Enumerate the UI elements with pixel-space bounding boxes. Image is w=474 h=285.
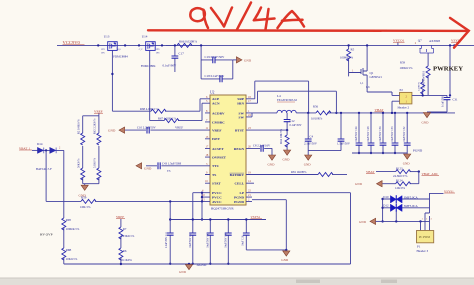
U2 left pin stubs	[202, 99, 210, 202]
ground under C31 wire	[422, 113, 431, 125]
wire BTST to bootstrap	[252, 129, 288, 131]
svg-text:C43 1.5uF/50M: C43 1.5uF/50M	[162, 161, 182, 165]
U2 left pin names	[212, 97, 227, 204]
resistor R123	[366, 166, 419, 178]
wire P2 right to C31	[412, 94, 451, 97]
text HV OVP	[40, 233, 53, 237]
svg-text:REGN: REGN	[234, 147, 245, 151]
svg-text:R08: R08	[66, 218, 72, 222]
wire PGND loop top	[252, 193, 351, 264]
diode D14 BAT54C	[36, 142, 64, 171]
svg-text:10uF/50V C30: 10uF/50V C30	[379, 126, 382, 142]
svg-text:TS: TS	[212, 173, 216, 177]
svg-text:U13: U13	[104, 35, 110, 39]
svg-text:T3: T3	[167, 169, 171, 173]
svg-text:R6: R6	[123, 249, 127, 253]
svg-text:OVPSET: OVPSET	[212, 156, 227, 160]
svg-text:AX3828: AX3828	[429, 39, 440, 43]
resistor R59	[46, 196, 202, 209]
svg-text:GEH2S21: GEH2S21	[370, 75, 383, 79]
svg-text:R123: R123	[396, 166, 403, 170]
resistor R67 ACN sense	[150, 103, 205, 122]
inductor L4	[252, 94, 308, 113]
svg-text:GND: GND	[281, 258, 289, 262]
wire divider top tie	[83, 115, 99, 117]
annotation underline arrow	[148, 18, 469, 48]
svg-text:0.010R%: 0.010R%	[311, 116, 323, 120]
svg-text:10uF/50V C13: 10uF/50V C13	[189, 232, 192, 248]
svg-text:ACP: ACP	[212, 97, 220, 101]
svg-text:BATDRV: BATDRV	[230, 173, 245, 177]
svg-text:U2: U2	[210, 90, 215, 94]
wire main VCC rail	[57, 44, 474, 46]
svg-text:R81 1K0B%: R81 1K0B%	[291, 170, 307, 174]
svg-text:ACSET: ACSET	[212, 147, 224, 151]
wire SRP sense	[252, 81, 309, 113]
svg-text:Header 2: Header 2	[398, 106, 410, 110]
ground left of R124	[355, 181, 382, 187]
transistor Q7	[415, 38, 441, 53]
svg-text:BTST: BTST	[235, 129, 245, 133]
ground under C8	[268, 155, 276, 166]
wire TVS left vertical	[381, 198, 383, 223]
svg-text:R6B: R6B	[66, 248, 72, 252]
svg-text:R124: R124	[396, 178, 403, 182]
svg-text:6,6: 6,6	[366, 86, 370, 89]
svg-text:10uF/50V C32: 10uF/50V C32	[403, 126, 406, 142]
capacitor C43 on TTC	[146, 161, 205, 172]
svg-text:GND: GND	[179, 270, 187, 274]
capacitor C30	[379, 112, 386, 154]
svg-text:ISET: ISET	[212, 137, 221, 141]
wire AGND bottom rail	[64, 263, 351, 265]
op-amp U2 body	[210, 90, 246, 210]
resistor R08	[62, 218, 80, 231]
wire U14 drain drop	[149, 50, 151, 120]
node VREF divider top	[94, 110, 103, 116]
resistor R64	[280, 128, 289, 150]
svg-text:100KR/1%: 100KR/1%	[66, 227, 80, 231]
wire P1 pin columns	[421, 199, 433, 231]
U2 right pin names	[230, 97, 245, 204]
U2 right pin stubs	[246, 99, 254, 202]
U2 right pin numbers	[248, 96, 251, 202]
capacitor C10 on VREF	[125, 126, 205, 134]
svg-text:GND: GND	[355, 182, 363, 186]
resistor R56 current sense	[311, 105, 331, 121]
svg-text:10uF/50V C33: 10uF/50V C33	[391, 126, 394, 142]
capacitor C13	[189, 218, 196, 265]
svg-text:GND: GND	[244, 58, 252, 62]
svg-text:PGND: PGND	[234, 196, 244, 200]
svg-text:GND: GND	[403, 161, 411, 165]
svg-text:D12: D12	[383, 204, 389, 208]
svg-text:SMF5.0CA: SMF5.0CA	[404, 195, 419, 199]
svg-text:R5: R5	[351, 47, 355, 51]
svg-text:GND: GND	[144, 167, 152, 171]
ground left of TVS row	[359, 218, 381, 224]
capacitor C47	[206, 218, 213, 265]
resistor R6	[119, 248, 133, 264]
capacitor C18	[201, 60, 233, 82]
svg-text:24.3K0/V%: 24.3K0/V%	[393, 174, 408, 178]
svg-text:10uF/50V C28: 10uF/50V C28	[367, 126, 370, 142]
svg-text:0.1uF/50V: 0.1uF/50V	[290, 124, 302, 127]
resistor R66	[166, 40, 201, 48]
wire TVS top row	[383, 198, 430, 200]
resistor R19	[423, 53, 431, 95]
wire HV OVP column	[63, 150, 65, 264]
svg-text:FXL2030/3R3-M: FXL2030/3R3-M	[277, 99, 297, 102]
svg-text:PVCC: PVCC	[212, 196, 222, 200]
svg-text:2.2uF/50V C11: 2.2uF/50V C11	[165, 231, 168, 248]
svg-text:100K0/1%: 100K0/1%	[400, 66, 414, 70]
capacitor C31	[427, 96, 458, 112]
svg-text:PVCC: PVCC	[212, 191, 222, 195]
wire TVS bottom row	[381, 212, 430, 223]
svg-text:Q7: Q7	[418, 38, 422, 42]
wire TVS mid row	[383, 207, 430, 209]
svg-text:10uF/50V C47: 10uF/50V C47	[206, 232, 209, 248]
svg-text:0.1uF/90V: 0.1uF/90V	[163, 64, 177, 68]
svg-text:C4: C4	[310, 134, 314, 138]
svg-text:PGND: PGND	[413, 149, 423, 153]
svg-text:C18 0.1uF/50V: C18 0.1uF/50V	[205, 74, 226, 78]
capacitor C12 bootstrap	[284, 113, 302, 135]
ground under R64	[283, 150, 291, 161]
svg-text:BAT54C-7-F: BAT54C-7-F	[36, 167, 52, 171]
svg-text:R68 4.02K/1%: R68 4.02K/1%	[140, 107, 159, 111]
ground under C4	[304, 155, 312, 166]
capacitor C24	[355, 112, 362, 154]
node VCC9V0	[63, 40, 85, 45]
svg-text:VREF: VREF	[175, 126, 183, 130]
svg-text:2.1uF/50V: 2.1uF/50V	[304, 142, 318, 146]
svg-text:SRP: SRP	[237, 97, 244, 101]
node VBAT_1	[19, 146, 38, 150]
svg-text:AGND: AGND	[197, 263, 207, 267]
svg-text:CMSRC: CMSRC	[212, 120, 225, 124]
svg-text:GND: GND	[268, 162, 276, 166]
svg-text:10uF/50V C24: 10uF/50V C24	[355, 126, 358, 142]
svg-text:C10 2.2uF/50V: C10 2.2uF/50V	[137, 126, 157, 130]
svg-text:R66 0.020R%: R66 0.020R%	[179, 40, 197, 44]
diode D10 TVS	[383, 195, 418, 203]
resistor R63 lower-right	[94, 151, 101, 184]
svg-text:C19 0.1uF/50V: C19 0.1uF/50V	[205, 55, 226, 59]
annotation text 9V/4A	[190, 3, 304, 30]
svg-text:FDMC8884: FDMC8884	[113, 54, 128, 58]
svg-text:GND: GND	[108, 129, 116, 133]
svg-text:10K0/1%: 10K0/1%	[66, 257, 78, 261]
svg-text:12K/0%: 12K/0%	[395, 186, 406, 190]
capacitor C19	[200, 44, 233, 63]
svg-text:Header 3: Header 3	[417, 249, 429, 253]
resistor R81 on BATDRV	[252, 170, 347, 176]
capacitor C4	[304, 113, 318, 151]
capacitor C33	[391, 112, 398, 154]
svg-text:PWRKEY: PWRKEY	[433, 66, 463, 73]
svg-text:1N4148W R19: 1N4148W R19	[423, 70, 426, 88]
svg-text:R64 10R/5%: R64 10R/5%	[280, 128, 283, 143]
svg-text:P1: P1	[417, 245, 421, 249]
wire Q1 source to P2	[367, 80, 392, 95]
svg-text:10uF C16: 10uF C16	[241, 235, 244, 246]
ground PGND of cap bank	[403, 149, 423, 166]
wire PVCC column	[193, 192, 203, 221]
svg-text:HV OVP: HV OVP	[40, 233, 53, 237]
node VREF2 R7 top	[116, 215, 125, 219]
node VBAT rail label	[375, 108, 385, 112]
svg-text:GND: GND	[283, 157, 291, 161]
resistor R57 lower-left	[78, 151, 85, 184]
ground left of C10	[108, 127, 125, 133]
ground mid loop	[281, 250, 290, 262]
svg-text:R2 100K0/%: R2 100K0/%	[78, 119, 81, 134]
svg-text:U14: U14	[142, 35, 148, 39]
transistor U14	[138, 35, 163, 68]
wire VSYS1 rail	[170, 219, 266, 221]
node VSYS1 label	[251, 215, 263, 219]
svg-text:GND: GND	[304, 162, 312, 166]
svg-text:R59: R59	[81, 196, 87, 200]
transistor Q1	[349, 44, 383, 89]
transistor U13	[97, 35, 128, 59]
svg-text:SRN: SRN	[237, 102, 244, 106]
resistor R110 feeding P2	[418, 79, 425, 95]
header P1	[417, 231, 434, 254]
svg-text:3.23K0/1%: 3.23K0/1%	[121, 234, 135, 238]
capacitor C32	[403, 112, 410, 153]
svg-text:C17: C17	[179, 52, 185, 56]
svg-text:AVCC: AVCC	[212, 200, 222, 204]
svg-text:PGND: PGND	[234, 200, 244, 204]
svg-text:R62 2.2K0/%: R62 2.2K0/%	[94, 118, 97, 134]
resistor R2	[78, 116, 85, 151]
wire D14 center drop	[45, 150, 47, 201]
resistor R5	[340, 44, 355, 76]
diode D12 TVS	[383, 204, 418, 212]
resistor R6B	[62, 248, 78, 261]
svg-text:D10: D10	[383, 195, 389, 199]
resistor R124	[383, 172, 419, 191]
svg-text:SW: SW	[239, 115, 245, 119]
ground divider	[79, 184, 89, 198]
svg-text:ACN: ACN	[212, 102, 220, 106]
wire SRN sense	[252, 91, 338, 114]
svg-text:10uF/50V C48: 10uF/50V C48	[224, 232, 227, 248]
svg-text:C8 2.2uF/16V: C8 2.2uF/16V	[253, 143, 271, 147]
svg-text:VREF: VREF	[212, 129, 222, 133]
svg-text:5.1K0/%: 5.1K0/%	[94, 157, 97, 168]
svg-text:GND: GND	[422, 120, 430, 124]
node VSYS top	[451, 39, 461, 47]
svg-text:PC PWM: PC PWM	[419, 236, 430, 239]
svg-text:TTC: TTC	[212, 164, 220, 168]
node VBAT_ADC	[418, 170, 439, 175]
wire VSYS drop to P2 row	[449, 44, 451, 95]
U2 left pin numbers	[202, 96, 209, 202]
resistor R62	[94, 116, 101, 151]
text PWRKEY	[433, 66, 463, 73]
svg-text:R67 4.02K/1%: R67 4.02K/1%	[158, 116, 177, 120]
capacitor C48	[224, 218, 231, 265]
svg-text:100K0/1%: 100K0/1%	[340, 55, 354, 59]
wire caps gnd rail	[352, 152, 407, 154]
svg-text:1.5uF/50V: 1.5uF/50V	[337, 142, 351, 146]
svg-text:R59: R59	[400, 61, 406, 65]
ground top-right of C19	[233, 57, 252, 63]
svg-text:P2: P2	[400, 88, 404, 92]
capacitor C28	[367, 112, 374, 154]
resistor R68 ACP sense	[112, 99, 205, 113]
node VYCO1	[393, 39, 405, 46]
wire U13 drain drop	[111, 50, 113, 111]
resistor R59b labels	[400, 61, 414, 70]
header P2	[398, 88, 412, 110]
svg-text:14.0R/%: 14.0R/%	[418, 82, 421, 91]
svg-text:C31: C31	[453, 98, 459, 102]
svg-text:BQ24733RGYR: BQ24733RGYR	[211, 206, 234, 210]
svg-text:C,C: C,C	[139, 48, 143, 51]
svg-text:R7: R7	[123, 227, 127, 231]
svg-text:C12: C12	[290, 119, 296, 123]
svg-text:50K0/%: 50K0/%	[78, 158, 81, 168]
capacitor C11	[165, 200, 173, 265]
ground left of C43	[136, 163, 152, 171]
capacitor C17	[163, 44, 185, 72]
svg-text:SMF5.0CA: SMF5.0CA	[404, 204, 419, 208]
svg-text:STAT: STAT	[212, 182, 221, 186]
svg-text:VCC9V0: VCC9V0	[63, 40, 81, 45]
node VSYS2 top right	[430, 189, 456, 199]
svg-text:CELL: CELL	[234, 182, 244, 186]
svg-text:FDMC8884: FDMC8884	[141, 64, 156, 68]
capacitor C6	[308, 112, 351, 155]
svg-text:R56: R56	[313, 105, 319, 109]
ground AGND	[179, 263, 207, 274]
capacitor C8 on REGN	[252, 143, 272, 155]
svg-text:50.1K0%: 50.1K0%	[121, 258, 133, 262]
svg-text:L4: L4	[277, 94, 281, 98]
svg-text:0.1uF/50V: 0.1uF/50V	[442, 96, 445, 107]
wire VBAT rail	[307, 112, 455, 114]
wire divider bottom tie	[83, 183, 99, 185]
svg-text:D14: D14	[37, 142, 43, 146]
svg-text:ACDRV: ACDRV	[212, 111, 225, 115]
svg-text:10R/1%: 10R/1%	[80, 205, 91, 209]
svg-text:1,1: 1,1	[360, 82, 364, 85]
capacitor C16	[241, 218, 286, 250]
bottom window bar	[0, 278, 474, 285]
resistor R7	[119, 219, 135, 248]
wire P2 pin stubs	[391, 92, 400, 114]
svg-text:GND: GND	[359, 220, 367, 224]
